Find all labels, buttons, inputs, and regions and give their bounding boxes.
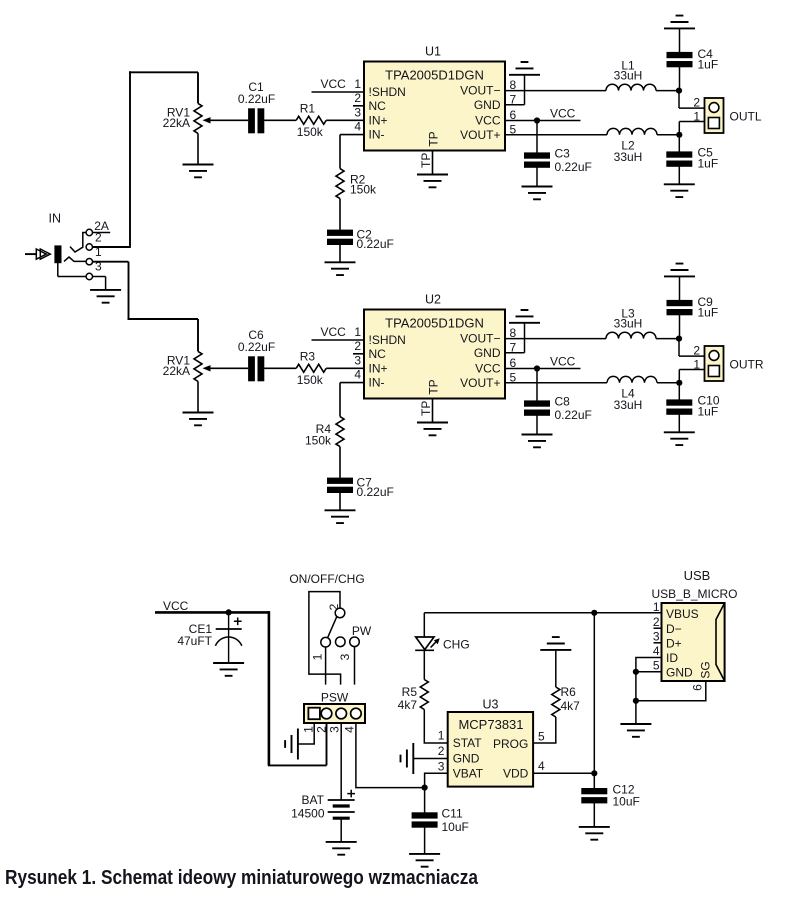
jack pin 3 wire xyxy=(93,276,106,278)
wire xyxy=(678,414,680,432)
capacitor C1 0.22uF xyxy=(248,108,264,133)
junction VBAT net xyxy=(422,785,428,791)
svg-text:0.22uF: 0.22uF xyxy=(555,408,592,422)
ground jack xyxy=(90,290,121,303)
jack pin circles 2A,2,1,3 xyxy=(86,229,92,235)
svg-text:GND: GND xyxy=(666,665,693,679)
junction VDD rail xyxy=(591,610,597,616)
wire xyxy=(657,134,679,136)
switch contact mid xyxy=(336,637,346,647)
wire VCC riser xyxy=(268,611,271,765)
wire battery to ground xyxy=(340,818,342,842)
wire to OUT pin2 xyxy=(678,339,680,357)
connector OUTL xyxy=(705,98,724,133)
svg-text:4: 4 xyxy=(354,120,361,134)
node IN input line xyxy=(25,253,37,255)
svg-text:2: 2 xyxy=(438,744,445,758)
svg-text:ON/OFF/CHG: ON/OFF/CHG xyxy=(289,572,364,586)
svg-text:VCC: VCC xyxy=(475,362,501,376)
wire xyxy=(593,803,595,827)
inductor L3 33uH xyxy=(606,332,656,338)
capacitor C8 0.22uF xyxy=(524,400,550,415)
PSW pin1 square xyxy=(308,708,320,720)
resistor R4 150k xyxy=(336,417,344,447)
svg-text:3: 3 xyxy=(354,353,361,367)
svg-text:5: 5 xyxy=(653,659,660,673)
USB pin2 stub xyxy=(654,627,662,629)
wire VOUT+ xyxy=(505,382,607,384)
svg-text:IN-: IN- xyxy=(369,376,385,390)
svg-text:U3: U3 xyxy=(483,698,499,712)
svg-text:R1: R1 xyxy=(300,102,316,116)
svg-text:22kA: 22kA xyxy=(163,116,190,130)
svg-text:3: 3 xyxy=(328,726,342,733)
wire xyxy=(326,367,364,369)
wire IN- net xyxy=(340,134,364,136)
switch arm xyxy=(328,617,337,638)
wire pin1 net horizontal xyxy=(128,318,199,320)
svg-text:1: 1 xyxy=(302,726,316,733)
node VCC xyxy=(312,91,365,93)
wire xyxy=(339,199,341,230)
svg-text:VCC: VCC xyxy=(321,325,347,339)
svg-text:OUTL: OUTL xyxy=(730,110,762,124)
inductor L4 33uH xyxy=(607,376,657,382)
svg-text:10uF: 10uF xyxy=(613,795,640,809)
svg-text:1: 1 xyxy=(95,245,102,259)
jack pin 2 wire to RV1 top xyxy=(93,246,131,248)
svg-text:R5: R5 xyxy=(402,685,418,699)
svg-text:OUTR: OUTR xyxy=(730,358,764,372)
wire IN- net xyxy=(340,382,364,384)
svg-text:1: 1 xyxy=(653,600,660,614)
svg-text:14500: 14500 xyxy=(291,807,325,821)
wire VBAT pin3 xyxy=(425,773,448,787)
wire xyxy=(424,827,426,854)
capacitor C7 0.22uF xyxy=(327,478,353,493)
wire OUT pin1 xyxy=(679,121,704,123)
svg-text:U2: U2 xyxy=(425,293,441,307)
svg-text:C8: C8 xyxy=(555,395,571,409)
svg-text:2: 2 xyxy=(653,615,660,629)
test point TP U1 xyxy=(432,151,434,175)
svg-text:CHG: CHG xyxy=(443,637,470,651)
ground C5 xyxy=(664,184,695,197)
svg-text:MCP73831: MCP73831 xyxy=(458,717,523,732)
wire xyxy=(679,67,681,91)
pin 2 stub xyxy=(353,105,364,107)
ground pin7 xyxy=(509,310,540,323)
ground C4 xyxy=(664,16,695,29)
svg-text:150k: 150k xyxy=(305,434,332,448)
svg-text:TP: TP xyxy=(419,401,433,416)
junction VDD xyxy=(591,770,597,776)
inductor L2 33uH xyxy=(607,128,657,134)
ground pin7 xyxy=(509,62,540,75)
svg-text:IN+: IN+ xyxy=(369,361,388,375)
wire OUT pin1 xyxy=(679,369,704,371)
svg-text:D−: D− xyxy=(666,622,682,636)
ground battery xyxy=(326,842,357,855)
capacitor C11 10uF xyxy=(412,812,438,827)
jack J1 body xyxy=(54,245,61,263)
svg-text:C11: C11 xyxy=(442,807,463,821)
wire GND pin 7 xyxy=(505,352,525,354)
svg-text:GND: GND xyxy=(474,346,501,360)
svg-text:1: 1 xyxy=(354,77,361,91)
svg-text:STAT: STAT xyxy=(453,736,483,750)
svg-text:1uF: 1uF xyxy=(698,58,719,72)
wire xyxy=(656,90,679,92)
ground R6 xyxy=(540,637,571,650)
svg-text:Rysunek 1. Schemat ideowy mini: Rysunek 1. Schemat ideowy miniaturowego … xyxy=(5,867,479,889)
svg-text:0.22uF: 0.22uF xyxy=(555,160,592,174)
capacitor C5 1uF xyxy=(666,151,692,166)
wire to C11 xyxy=(424,788,426,813)
wire xyxy=(678,135,680,152)
svg-text:R3: R3 xyxy=(300,350,316,364)
svg-text:4: 4 xyxy=(343,726,357,733)
svg-text:IN+: IN+ xyxy=(369,113,388,127)
svg-text:PROG: PROG xyxy=(493,737,528,751)
ground C3 xyxy=(522,187,553,200)
svg-text:VOUT+: VOUT+ xyxy=(460,128,500,142)
svg-text:TPA2005D1DGN: TPA2005D1DGN xyxy=(385,67,484,82)
wire xyxy=(536,415,538,434)
svg-text:2: 2 xyxy=(354,91,361,105)
svg-text:2: 2 xyxy=(315,726,329,733)
svg-text:VCC: VCC xyxy=(475,114,501,128)
junction xyxy=(676,336,682,342)
wire contact3 down xyxy=(354,647,356,685)
svg-text:USB_B_MICRO: USB_B_MICRO xyxy=(651,587,737,601)
svg-text:33uH: 33uH xyxy=(614,69,643,83)
svg-text:3: 3 xyxy=(95,260,102,274)
svg-text:1uF: 1uF xyxy=(698,306,719,320)
svg-text:VOUT−: VOUT− xyxy=(460,84,500,98)
LED CHG xyxy=(416,637,434,650)
svg-text:VCC: VCC xyxy=(163,599,189,613)
capacitor C2 0.22uF xyxy=(327,230,353,245)
svg-text:150k: 150k xyxy=(297,125,324,139)
wire USB GND pin5 xyxy=(636,671,662,673)
wire LED to R5 xyxy=(423,650,425,679)
wire contact1 down xyxy=(325,647,327,685)
connector OUTR xyxy=(705,346,724,381)
RV1 wiper arrow xyxy=(203,365,211,371)
svg-text:VBUS: VBUS xyxy=(666,607,699,621)
wire xyxy=(536,167,538,186)
junction CE1 xyxy=(226,609,232,615)
svg-text:10uF: 10uF xyxy=(442,820,469,834)
switch contact 3 PW xyxy=(350,637,360,647)
wire xyxy=(678,383,680,400)
wire VDD riser xyxy=(593,613,595,774)
capacitor C4 1uF xyxy=(667,52,693,67)
switch frame wire xyxy=(309,592,341,685)
wire down to RV1 xyxy=(197,72,199,103)
inductor L1 33uH xyxy=(606,84,656,90)
svg-text:5: 5 xyxy=(538,730,545,744)
wire xyxy=(657,382,679,384)
svg-text:0.22uF: 0.22uF xyxy=(357,237,394,251)
resistor R3 150k xyxy=(296,364,326,372)
svg-text:2: 2 xyxy=(327,603,341,610)
input arrow chevrons xyxy=(36,249,50,259)
wire xyxy=(656,338,679,340)
wire xyxy=(339,447,341,478)
op-amp U1 TPA2005D1DGN xyxy=(364,62,505,151)
svg-text:4k7: 4k7 xyxy=(398,698,418,712)
wire PSW pin4 to VBAT net xyxy=(356,723,425,788)
svg-text:VCC: VCC xyxy=(550,107,576,121)
wire VOUT+ xyxy=(505,134,607,136)
svg-text:1: 1 xyxy=(693,110,700,124)
wire xyxy=(678,166,680,184)
svg-text:2: 2 xyxy=(693,344,700,358)
resistor R1 150k xyxy=(296,116,326,124)
junction xyxy=(676,88,682,94)
svg-text:1uF: 1uF xyxy=(698,157,719,171)
svg-text:C3: C3 xyxy=(555,147,571,161)
svg-text:PW: PW xyxy=(352,624,372,638)
svg-text:3: 3 xyxy=(438,759,445,773)
node VCC pin6 xyxy=(505,368,581,370)
wire xyxy=(536,121,538,153)
svg-text:GND: GND xyxy=(474,98,501,112)
svg-text:NC: NC xyxy=(369,99,387,113)
PSW pin circles xyxy=(321,708,332,719)
node VCC xyxy=(312,339,365,341)
USB pin3 stub xyxy=(654,642,662,644)
ground C2 xyxy=(325,262,356,275)
resistor R2 150k xyxy=(336,169,344,199)
svg-text:0.22uF: 0.22uF xyxy=(357,485,394,499)
ground TP xyxy=(417,423,448,436)
wire xyxy=(264,367,296,369)
capacitor C10 1uF xyxy=(666,399,692,414)
wire xyxy=(326,119,364,121)
svg-text:ID: ID xyxy=(666,651,678,665)
wire top horizontal to RV1 xyxy=(129,71,198,73)
svg-text:TP: TP xyxy=(427,131,441,146)
svg-text:VBAT: VBAT xyxy=(453,767,484,781)
charger U3 MCP73831 xyxy=(448,712,533,787)
svg-text:0.22uF: 0.22uF xyxy=(238,92,275,106)
wire xyxy=(339,493,341,511)
battery BAT 14500 xyxy=(328,799,355,801)
svg-text:VCC: VCC xyxy=(321,77,347,91)
jack pin 2A stub xyxy=(93,232,111,234)
wire PSW pin1 to ground xyxy=(298,723,314,744)
svg-text:6: 6 xyxy=(691,684,705,691)
svg-text:U1: U1 xyxy=(425,45,441,59)
ground TP xyxy=(417,175,448,188)
svg-text:!SHDN: !SHDN xyxy=(369,333,406,347)
switch contact 1 xyxy=(321,637,331,647)
wire xyxy=(679,315,681,339)
wire down to RV1 second xyxy=(197,319,199,351)
wire VDD pin4 xyxy=(533,772,594,774)
wire xyxy=(536,369,538,401)
svg-text:2: 2 xyxy=(693,96,700,110)
wire to PSW pin2 xyxy=(268,764,327,766)
capacitor C12 10uF xyxy=(581,788,607,803)
svg-text:SG: SG xyxy=(699,661,713,678)
ground U3 GND xyxy=(401,743,414,774)
svg-text:BAT: BAT xyxy=(302,793,325,807)
junction xyxy=(633,698,639,704)
capacitor C9 1uF xyxy=(667,300,693,315)
capacitor C6 0.22uF xyxy=(248,356,264,381)
node VCC pin6 xyxy=(505,120,581,122)
pin 2 stub xyxy=(353,353,364,355)
svg-text:2: 2 xyxy=(354,339,361,353)
wire xyxy=(264,119,296,121)
USB shell bevel xyxy=(716,603,725,681)
svg-text:VOUT+: VOUT+ xyxy=(460,376,500,390)
svg-text:VCC: VCC xyxy=(550,355,576,369)
svg-text:3: 3 xyxy=(653,630,660,644)
capacitor C3 0.22uF xyxy=(524,152,550,167)
ground USB xyxy=(620,724,651,737)
svg-text:TPA2005D1DGN: TPA2005D1DGN xyxy=(385,315,484,330)
svg-text:33uH: 33uH xyxy=(614,150,643,164)
svg-text:4: 4 xyxy=(354,368,361,382)
svg-text:NC: NC xyxy=(369,347,387,361)
wire to ground xyxy=(635,701,637,724)
svg-text:22kA: 22kA xyxy=(163,364,190,378)
junction xyxy=(676,132,682,138)
wire PROG pin5 to R6 xyxy=(533,717,556,743)
wire VOUT- xyxy=(505,90,606,92)
svg-text:150k: 150k xyxy=(350,183,377,197)
svg-text:33uH: 33uH xyxy=(614,398,643,412)
ground C11 xyxy=(409,854,440,867)
jack pin 1 wire xyxy=(93,261,129,263)
wire to C12 xyxy=(593,773,595,788)
svg-text:2: 2 xyxy=(95,231,102,245)
wire R6 up xyxy=(555,650,557,687)
wire riser pin2 net xyxy=(129,71,131,248)
svg-text:TP: TP xyxy=(419,153,433,168)
ground C10 xyxy=(664,432,695,445)
wire xyxy=(339,245,341,263)
RV1 wiper arrow xyxy=(203,117,211,123)
ground C12 xyxy=(579,827,610,840)
svg-text:VDD: VDD xyxy=(503,766,529,780)
ground RV1 xyxy=(183,165,214,178)
jack switch contact hooks xyxy=(70,233,86,253)
svg-text:GND: GND xyxy=(453,751,480,765)
svg-text:D+: D+ xyxy=(666,636,682,650)
ground PSW pin1 xyxy=(285,729,298,760)
wire R5 to STAT xyxy=(424,710,447,744)
ground RV1 xyxy=(183,413,214,426)
wire GND pin2 xyxy=(413,758,447,760)
svg-text:IN-: IN- xyxy=(369,128,385,142)
wire GND pin 7 xyxy=(505,104,525,106)
svg-text:1: 1 xyxy=(438,729,445,743)
svg-text:4: 4 xyxy=(538,759,545,773)
potentiometer RV1 (OUTR channel) xyxy=(194,351,202,381)
ground C8 xyxy=(522,435,553,448)
svg-text:TP: TP xyxy=(427,379,441,394)
wire USB ID pin4 xyxy=(636,658,662,672)
svg-text:PSW: PSW xyxy=(321,691,349,705)
wire xyxy=(679,276,681,300)
wire VOUT- xyxy=(505,338,606,340)
wire top rail to USB VBUS xyxy=(424,612,661,614)
op-amp U2 TPA2005D1DGN xyxy=(364,310,505,399)
svg-text:1: 1 xyxy=(311,653,325,660)
svg-text:1: 1 xyxy=(354,325,361,339)
ground CE1 xyxy=(213,663,244,676)
wire xyxy=(679,28,681,52)
junction xyxy=(676,380,682,386)
svg-text:1: 1 xyxy=(693,358,700,372)
svg-text:4k7: 4k7 xyxy=(561,699,581,713)
svg-text:!SHDN: !SHDN xyxy=(369,85,406,99)
wire to OUT pin2 xyxy=(678,91,680,109)
svg-text:USB: USB xyxy=(684,568,711,583)
resistor R6 4k7 xyxy=(552,687,560,717)
test point TP U2 xyxy=(432,399,434,423)
jack sleeve wire xyxy=(57,262,59,277)
resistor R5 4k7 xyxy=(420,680,428,710)
svg-text:IN: IN xyxy=(49,212,62,226)
wire pin1 net down xyxy=(128,262,130,320)
svg-text:3: 3 xyxy=(338,653,352,660)
potentiometer RV1 (OUTL channel) xyxy=(194,103,202,133)
capacitor CE1 47uFT electrolytic xyxy=(228,612,230,663)
wire PSW pin3 to battery xyxy=(340,723,342,800)
svg-text:47uFT: 47uFT xyxy=(177,634,212,648)
svg-text:VOUT−: VOUT− xyxy=(460,332,500,346)
wire pin3 to ground xyxy=(105,277,107,290)
svg-text:150k: 150k xyxy=(297,373,324,387)
svg-text:1uF: 1uF xyxy=(698,405,719,419)
svg-text:3: 3 xyxy=(354,105,361,119)
svg-text:R6: R6 xyxy=(561,685,577,699)
svg-text:0.22uF: 0.22uF xyxy=(238,340,275,354)
wire down to LED xyxy=(423,613,425,637)
ground C7 xyxy=(325,510,356,523)
junction xyxy=(633,669,639,675)
svg-text:4: 4 xyxy=(653,644,660,658)
wire USB shield pin6 xyxy=(636,681,706,701)
switch contact 2 xyxy=(335,608,345,618)
svg-text:33uH: 33uH xyxy=(614,317,643,331)
ground C9 xyxy=(664,264,695,277)
wire down xyxy=(635,672,637,701)
